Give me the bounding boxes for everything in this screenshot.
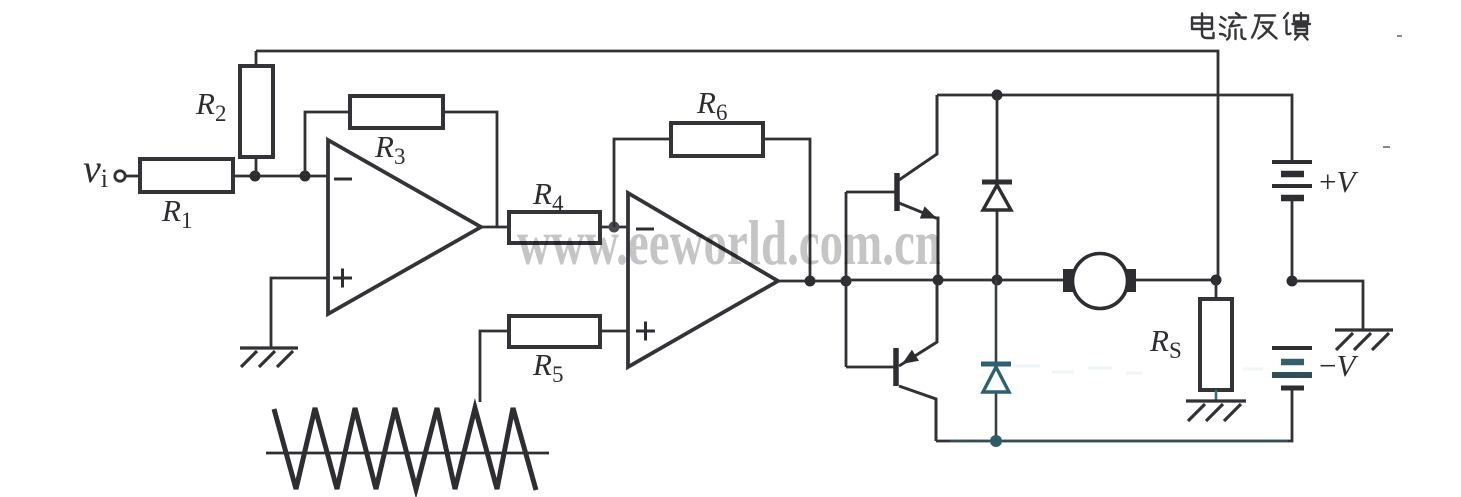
svg-text:R5: R5 — [532, 347, 563, 387]
Q1 emitter arrow — [920, 206, 937, 218]
resistor R5 — [509, 316, 600, 347]
U1 plus sign — [333, 269, 352, 288]
Q1 emitter — [899, 203, 938, 280]
ground G2 — [1335, 330, 1393, 350]
node I junction feedback/RS — [1211, 275, 1222, 286]
svg-text:RS: RS — [1149, 323, 1182, 363]
wire node C up to R6 — [614, 139, 671, 227]
Q2 emitter arrow — [902, 350, 919, 364]
svg-text:vi: vi — [83, 146, 108, 193]
watermark ghost right — [1014, 366, 1263, 373]
diode D2 symbol — [981, 364, 1011, 392]
resistor R6 — [671, 123, 763, 156]
ground G1 — [240, 348, 298, 367]
svg-text:R6: R6 — [696, 85, 727, 125]
node B junction R3 tap — [300, 171, 311, 182]
U2 minus sign — [636, 228, 654, 231]
diode D2 vertical wire — [995, 280, 998, 441]
node vi input terminal — [115, 171, 125, 181]
diode D1 vertical wire — [996, 95, 999, 280]
node H junction D1 bottom — [992, 275, 1003, 286]
wire R5 to U2 noninverting input — [600, 330, 628, 333]
resistor R1 — [140, 159, 233, 192]
node G junction Q1 emitter — [933, 275, 944, 286]
wire input to R1 — [126, 175, 140, 178]
node K junction D2 bottom — [990, 435, 1002, 447]
node J junction supplies — [1287, 276, 1298, 287]
svg-text:R1: R1 — [161, 193, 192, 233]
wire R1 to opamp inverting input — [233, 175, 328, 178]
wire R2 top to feedback rail — [255, 51, 258, 66]
node A junction R1/R2 — [250, 171, 261, 182]
battery B2 -V — [1272, 348, 1312, 388]
U2 plus sign — [636, 322, 655, 341]
label current feedback (dian liu fan kui) — [1192, 13, 1310, 40]
node C junction R4/R6 — [609, 222, 620, 233]
op-amp U2 — [628, 193, 778, 367]
wire bottom rail teal tint — [950, 440, 1288, 442]
triangle wave source trace — [274, 408, 536, 490]
wire base drive vertical — [845, 192, 848, 367]
motor M body — [1073, 254, 1128, 309]
triangle wave source axis — [266, 452, 549, 455]
wire node B up to R3 — [305, 112, 350, 176]
wire R4 to U2 inverting input — [600, 226, 628, 229]
diode D1 symbol — [982, 182, 1012, 210]
battery B1 +V — [1272, 162, 1312, 198]
wire Q2 base lead — [846, 366, 894, 369]
wire triangle source to R5 — [480, 331, 509, 402]
wire motor to RS node — [1136, 279, 1216, 282]
wire U2 output rail — [778, 280, 846, 283]
wire B1 to node J — [1291, 198, 1294, 281]
wire node J to ground G2 — [1292, 281, 1363, 330]
wire RS bottom lead — [1215, 390, 1218, 401]
wire U1 output to R4 — [481, 226, 509, 229]
Q2 emitter — [899, 280, 937, 366]
wire Q1 base lead — [846, 191, 895, 194]
svg-text:R2: R2 — [195, 86, 226, 126]
resistor RS — [1200, 299, 1232, 390]
wire top rail to +V — [937, 95, 1292, 162]
wire mid rail opamp output to motor — [846, 279, 1063, 282]
ground G3 under RS — [1186, 401, 1246, 421]
scan speck — [1383, 36, 1402, 147]
wire R3 to opamp1 output — [443, 112, 497, 227]
Q1 collector — [899, 95, 937, 180]
U1 minus sign — [334, 178, 352, 181]
node E junction base drive — [841, 276, 852, 287]
wire current feedback rail top — [256, 51, 1218, 280]
wire RS top lead — [1215, 280, 1218, 299]
svg-text:R3: R3 — [374, 129, 405, 169]
transistor Q2 base bar — [893, 348, 899, 386]
node D junction R6 feedback — [805, 276, 816, 287]
svg-text:www.eeworld.com.cn: www.eeworld.com.cn — [517, 207, 941, 278]
wire R2 bottom lead — [255, 157, 258, 176]
transistor Q1 base bar — [894, 173, 900, 211]
node F junction top rail / D1 — [992, 90, 1003, 101]
op-amp U1 — [328, 140, 481, 314]
svg-text:−V: −V — [1319, 348, 1358, 383]
svg-text:+V: +V — [1319, 164, 1358, 199]
motor M brushes — [1063, 269, 1074, 292]
wire B2 to bottom rail — [936, 388, 1292, 441]
resistor R4 — [509, 212, 600, 243]
Q2 collector — [899, 386, 936, 441]
resistor R2 — [240, 66, 273, 157]
wire U1 noninverting input — [271, 278, 328, 348]
resistor R3 — [350, 96, 443, 128]
wire R6 to U2 output — [763, 139, 810, 281]
